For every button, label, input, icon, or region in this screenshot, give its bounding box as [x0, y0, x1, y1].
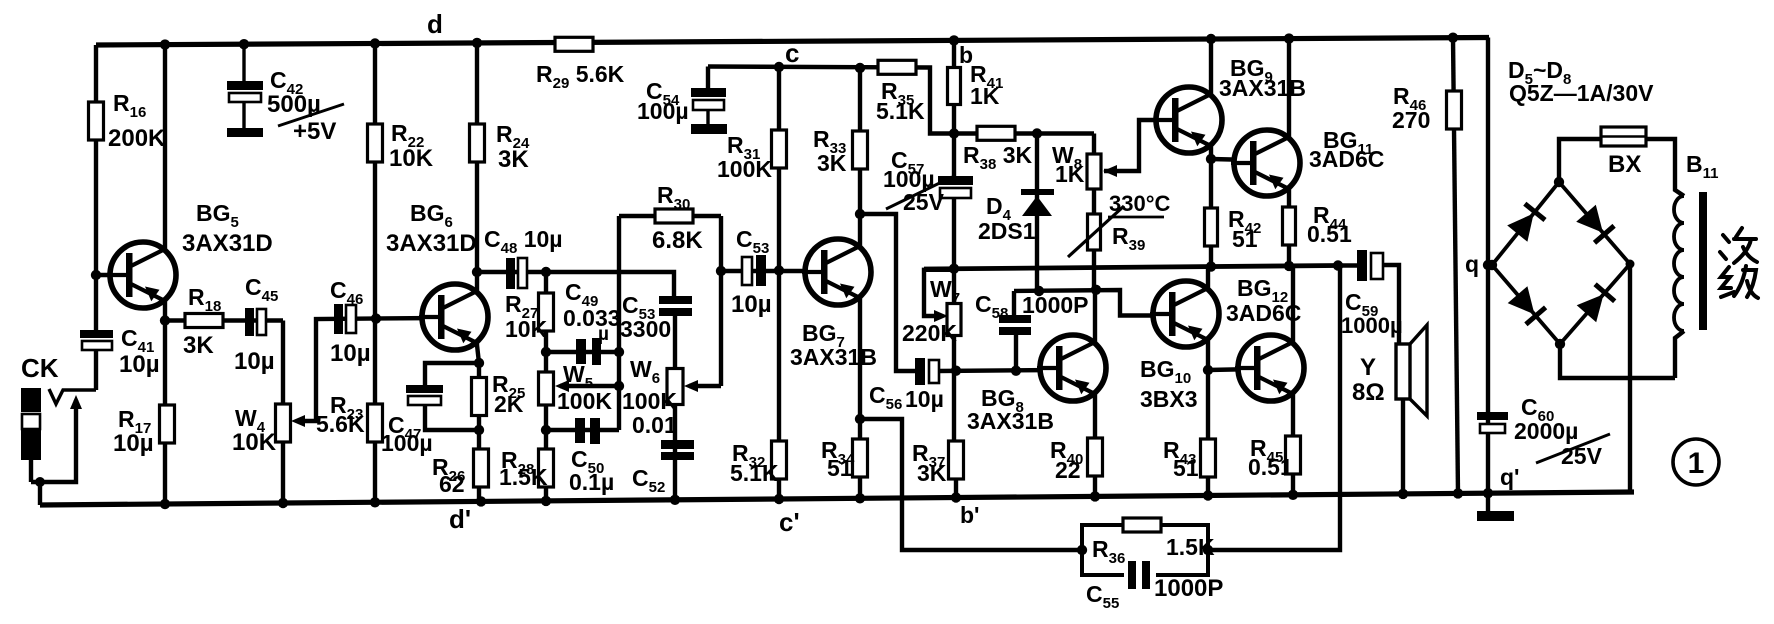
svg-text:270: 270: [1392, 107, 1430, 133]
svg-text:Q5Z—1A/30V: Q5Z—1A/30V: [1509, 80, 1654, 106]
svg-text:0.01: 0.01: [632, 412, 677, 438]
svg-text:100µ: 100µ: [637, 98, 689, 124]
svg-text:1K: 1K: [1055, 161, 1085, 187]
svg-text:100K: 100K: [557, 388, 612, 414]
svg-text:d': d': [449, 504, 471, 534]
svg-text:3K: 3K: [183, 332, 214, 359]
svg-text:10µ: 10µ: [731, 291, 772, 318]
svg-text:6.8K: 6.8K: [652, 227, 703, 254]
svg-text:3AX31B: 3AX31B: [967, 408, 1054, 434]
svg-text:200K: 200K: [108, 125, 166, 152]
svg-text:1000µ: 1000µ: [1341, 313, 1403, 338]
svg-text:q: q: [1465, 251, 1479, 277]
svg-text:3K: 3K: [917, 460, 947, 486]
svg-text:25V: 25V: [1561, 443, 1603, 469]
svg-text:3300: 3300: [620, 316, 671, 342]
svg-text:b': b': [960, 502, 980, 528]
svg-text:0.51: 0.51: [1248, 454, 1293, 480]
svg-text:3BX3: 3BX3: [1140, 386, 1198, 412]
svg-text:CK: CK: [21, 353, 59, 383]
svg-text:3AX31B: 3AX31B: [1219, 75, 1306, 101]
svg-text:62: 62: [439, 471, 465, 497]
svg-text:3AD6C: 3AD6C: [1226, 300, 1301, 326]
svg-text:330°C: 330°C: [1109, 191, 1171, 216]
svg-text:10K: 10K: [389, 145, 434, 172]
svg-text:3K: 3K: [817, 150, 847, 176]
svg-text:d: d: [427, 9, 443, 39]
svg-text:51: 51: [1232, 226, 1258, 252]
svg-text:10µ: 10µ: [905, 386, 944, 412]
svg-text:100K: 100K: [717, 156, 772, 182]
svg-text:5.6K: 5.6K: [316, 411, 365, 437]
svg-text:2000µ: 2000µ: [1514, 418, 1578, 444]
svg-text:5.1K: 5.1K: [730, 460, 779, 486]
svg-text:1.5K: 1.5K: [499, 464, 548, 490]
svg-text:1: 1: [1688, 447, 1705, 480]
svg-text:+5V: +5V: [293, 118, 336, 145]
svg-text:1K: 1K: [970, 83, 1000, 109]
svg-text:1.5K: 1.5K: [1166, 534, 1215, 560]
svg-text:22: 22: [1055, 457, 1081, 483]
svg-text:100K: 100K: [622, 388, 677, 414]
svg-text:c: c: [785, 38, 799, 68]
svg-text:0.033: 0.033: [563, 305, 621, 331]
svg-text:25V: 25V: [903, 189, 945, 215]
svg-text:100µ: 100µ: [381, 430, 433, 456]
svg-text:10µ: 10µ: [234, 348, 275, 375]
svg-text:51: 51: [827, 455, 853, 481]
svg-text:2DS1: 2DS1: [978, 218, 1036, 244]
svg-text:10µ: 10µ: [119, 351, 160, 378]
svg-text:1000P: 1000P: [1154, 575, 1223, 602]
svg-text:10µ: 10µ: [330, 340, 371, 367]
svg-text:10K: 10K: [505, 316, 548, 342]
svg-text:3AX31B: 3AX31B: [790, 344, 877, 370]
svg-text:3K: 3K: [498, 146, 529, 173]
svg-text:b: b: [959, 42, 973, 68]
svg-text:3AX31D: 3AX31D: [386, 230, 477, 257]
svg-text:0.51: 0.51: [1307, 221, 1352, 247]
svg-text:5.1K: 5.1K: [876, 98, 925, 124]
svg-text:µ: µ: [598, 324, 609, 345]
svg-text:q': q': [1500, 464, 1520, 490]
svg-text:51: 51: [1173, 455, 1199, 481]
svg-text:BX: BX: [1608, 151, 1641, 178]
svg-text:10µ: 10µ: [113, 430, 154, 457]
svg-text:10K: 10K: [232, 429, 277, 456]
svg-text:220K: 220K: [902, 320, 957, 346]
svg-text:8Ω: 8Ω: [1352, 379, 1385, 406]
svg-text:3AX31D: 3AX31D: [182, 230, 273, 257]
svg-text:3AD6C: 3AD6C: [1309, 146, 1384, 172]
svg-text:1000P: 1000P: [1022, 292, 1089, 318]
svg-text:0.1µ: 0.1µ: [569, 469, 614, 495]
svg-text:2K: 2K: [494, 391, 524, 417]
svg-text:c': c': [779, 507, 800, 537]
svg-text:Y: Y: [1360, 354, 1376, 381]
